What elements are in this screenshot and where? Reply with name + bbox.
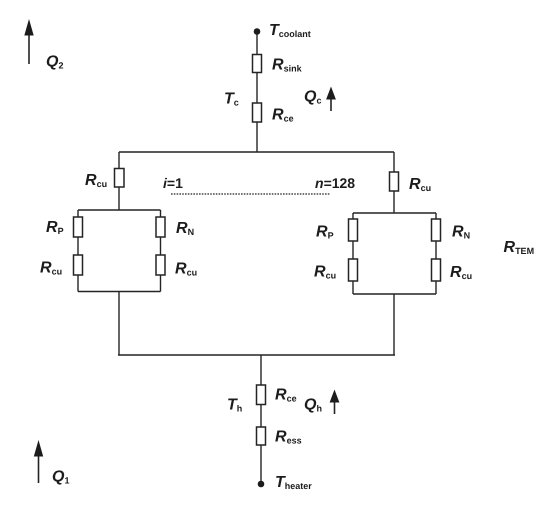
arrow Qc: [326, 87, 336, 112]
resistor RP (left box): [74, 217, 83, 237]
svg-text:Rcu: Rcu: [175, 261, 197, 278]
wire bottom stem upper: [260, 355, 262, 385]
svg-text:Rcu: Rcu: [450, 264, 472, 281]
wire top bus: [119, 151, 394, 153]
svg-text:Rcu: Rcu: [40, 260, 62, 277]
svg-text:Theater: Theater: [275, 474, 312, 491]
wire bottom stem lower: [260, 445, 262, 482]
resistor Rce (top): [253, 103, 262, 122]
wire right box left segments: [352, 213, 354, 294]
svg-text:Tcoolant: Tcoolant: [269, 22, 311, 39]
wire top stem upper: [256, 33, 258, 55]
resistor Rcu (left box right): [156, 255, 165, 275]
node Tcoolant (terminal dot): [254, 28, 261, 35]
resistor RP (right box): [349, 219, 358, 241]
wire top stem between Rsink and Rce: [256, 73, 258, 104]
svg-text:RTEM: RTEM: [504, 239, 535, 256]
wire top stem lower: [256, 122, 258, 152]
resistor Rcu (left box left): [74, 255, 83, 275]
svg-text:Q1: Q1: [52, 469, 69, 486]
resistor RN (right box): [432, 219, 441, 241]
wire bottom stem between Rce and Ress: [260, 405, 262, 428]
wire left box bottom: [78, 291, 161, 293]
wire right box right segments: [435, 213, 437, 294]
svg-text:Q2: Q2: [46, 54, 63, 71]
resistor Rcu (right box right): [432, 259, 441, 281]
wire left box top: [78, 209, 161, 211]
wire left branch drop: [118, 152, 120, 169]
svg-text:Rcu: Rcu: [409, 176, 431, 193]
arrow Q1: [34, 440, 43, 483]
arrow Q2: [24, 19, 33, 64]
svg-text:Rce: Rce: [272, 107, 294, 124]
node Theater (terminal dot): [258, 481, 265, 488]
dashed separator line between i=1 and n=128: [171, 193, 330, 195]
svg-text:Ress: Ress: [275, 429, 302, 446]
wire right branch to box: [393, 191, 395, 213]
svg-text:RP: RP: [46, 219, 64, 236]
wire bottom bus: [118, 354, 395, 356]
svg-text:Rsink: Rsink: [272, 57, 303, 74]
resistor Rce (bottom): [257, 385, 266, 405]
svg-text:n=128: n=128: [315, 175, 355, 191]
svg-text:Qh: Qh: [304, 397, 322, 414]
wire left box right segments: [160, 210, 162, 292]
svg-text:RN: RN: [452, 224, 470, 241]
resistor Rcu (left branch): [115, 169, 125, 188]
wire left box left segments: [77, 210, 79, 292]
svg-text:RN: RN: [176, 220, 194, 237]
resistor Rsink: [253, 55, 262, 73]
wire right branch drop: [393, 152, 395, 172]
arrow Qh: [330, 390, 340, 415]
svg-text:i=1: i=1: [163, 175, 183, 191]
resistor Rcu (right branch): [390, 172, 399, 191]
wire right box bottom: [353, 293, 436, 295]
wire left branch to box: [118, 187, 120, 210]
svg-text:Qc: Qc: [304, 89, 321, 106]
svg-text:Rcu: Rcu: [85, 172, 107, 189]
resistor Rcu (right box left): [349, 259, 358, 281]
wire left lower stem: [118, 292, 120, 356]
wire right box top: [353, 212, 436, 214]
wire right lower stem: [393, 294, 395, 355]
resistor RN (left box): [156, 217, 165, 237]
svg-text:Th: Th: [227, 397, 242, 414]
svg-text:Tc: Tc: [224, 91, 239, 108]
svg-text:Rcu: Rcu: [314, 264, 336, 281]
resistor Ress: [257, 427, 266, 445]
svg-text:RP: RP: [316, 224, 334, 241]
svg-text:Rce: Rce: [275, 387, 297, 404]
